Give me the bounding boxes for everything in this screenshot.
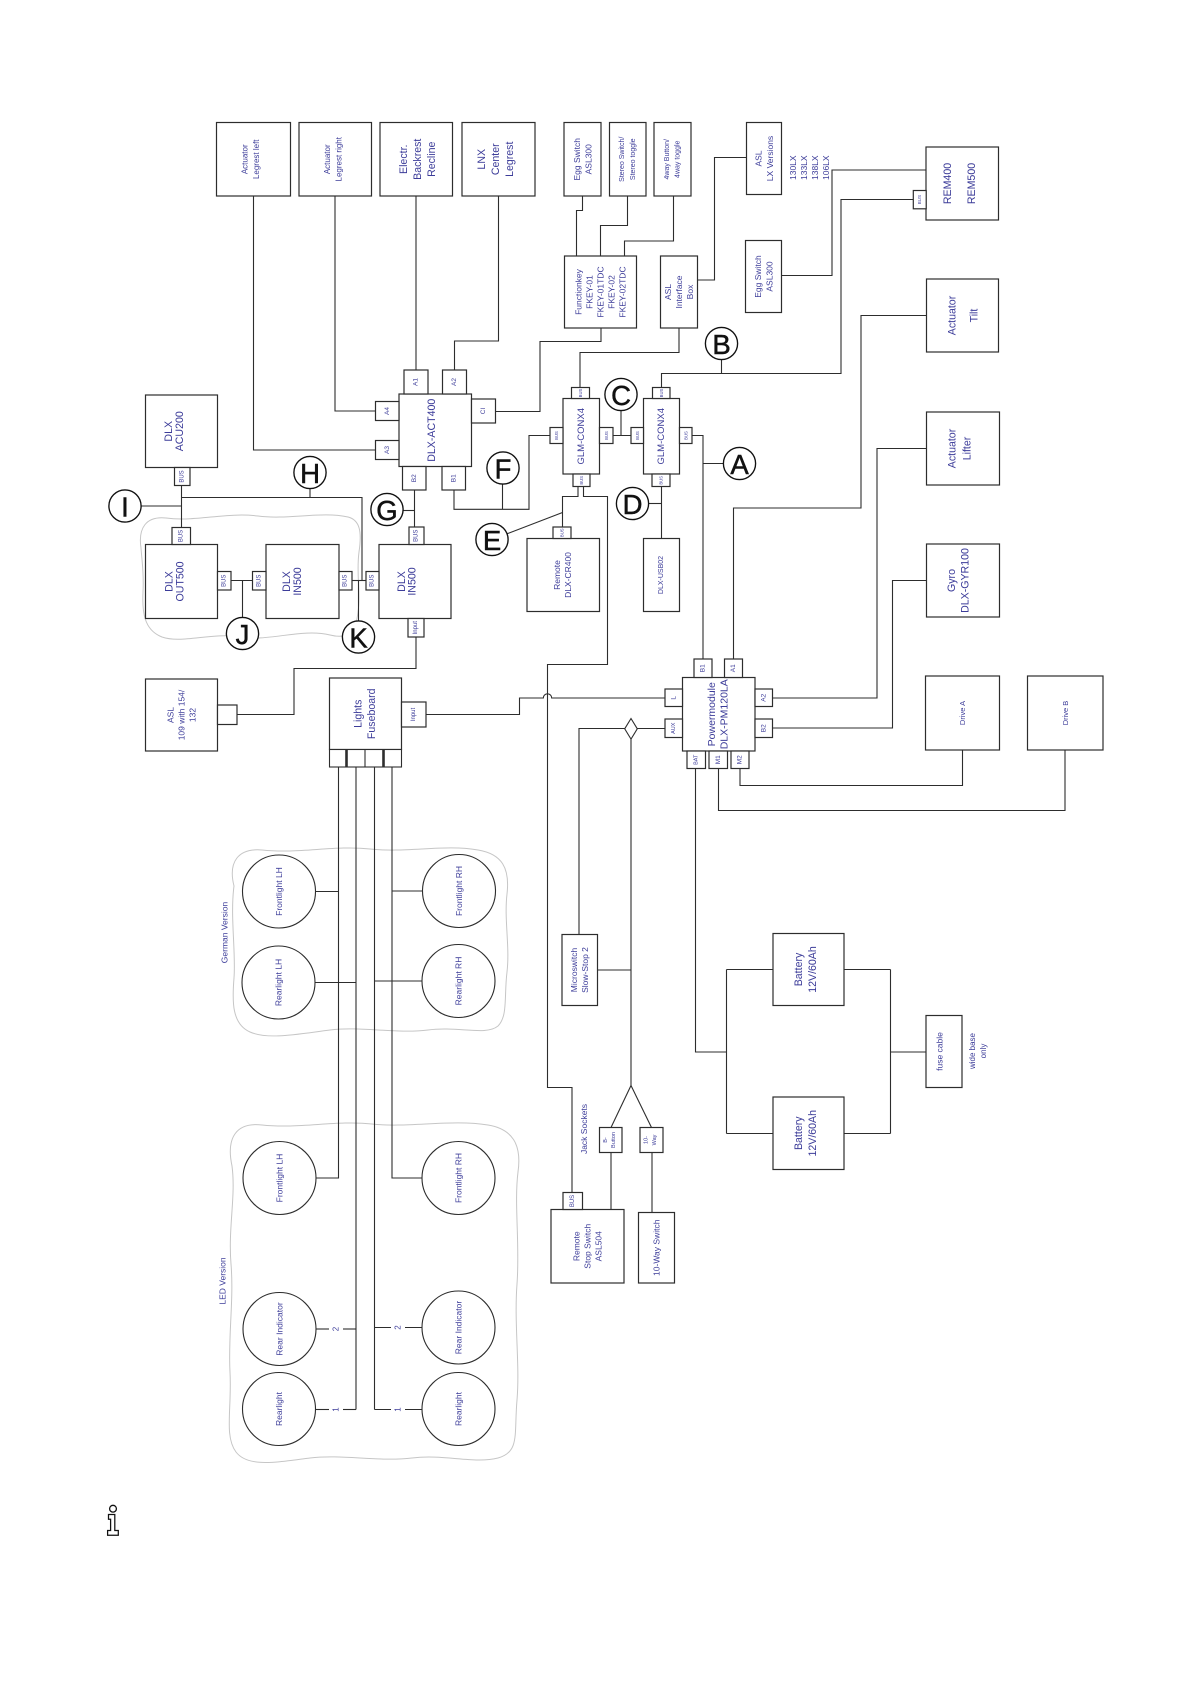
svg-text:A1: A1 <box>730 664 737 672</box>
wire node E diagonal tap <box>507 513 563 535</box>
svg-text:BUS: BUS <box>635 431 640 440</box>
port PM L <box>665 689 683 707</box>
wire Stereo Switch to Functionkey <box>601 196 628 256</box>
port IN500-1 BUS left <box>253 572 267 591</box>
component ASL 109 with 154/132 <box>146 679 218 751</box>
svg-text:IN500: IN500 <box>407 567 419 595</box>
svg-text:A1: A1 <box>413 378 420 386</box>
wire German Frontlight LH tap <box>316 891 339 893</box>
component DLX-ACT400 <box>399 394 472 467</box>
svg-text:CI: CI <box>480 408 487 415</box>
wire Functionkey to ACT400 CI <box>496 328 602 412</box>
svg-text:133LX: 133LX <box>799 155 809 180</box>
port IN500-2 BUS top <box>409 527 424 545</box>
wire lights wire 4 (Frontlight RH) <box>392 767 422 1178</box>
svg-text:DLX-GYR100: DLX-GYR100 <box>960 548 972 613</box>
port GLM1 BUS top <box>572 388 590 399</box>
component Actuator Tilt <box>927 279 999 352</box>
component LNX Center Legrest <box>462 123 535 197</box>
svg-text:REM400: REM400 <box>942 163 954 204</box>
component Egg Switch ASL300 (1) <box>564 123 601 197</box>
component 10-Way Switch <box>639 1213 675 1284</box>
component Remote DLX-CR400 <box>527 539 600 612</box>
node B <box>705 327 737 360</box>
component GLM-CONX4 (2) <box>644 399 680 475</box>
svg-text:B: B <box>712 329 730 360</box>
svg-text:Drive A: Drive A <box>958 701 967 725</box>
wire Legrest right to ACT400 A4 <box>335 196 376 411</box>
svg-text:Microswitch: Microswitch <box>569 948 579 993</box>
svg-text:Electr.: Electr. <box>398 145 410 174</box>
svg-text:1: 1 <box>394 1407 403 1412</box>
svg-text:2: 2 <box>394 1325 403 1330</box>
node K <box>342 621 374 654</box>
wire Lights Input to PM L with hop <box>426 694 665 715</box>
svg-text:Rearlight: Rearlight <box>274 1391 284 1426</box>
svg-text:FKEY-02: FKEY-02 <box>607 275 617 309</box>
svg-text:Interface: Interface <box>674 275 684 308</box>
lamp LED Rearlight L <box>243 1373 316 1446</box>
port jack 10-Way <box>640 1128 663 1153</box>
svg-text:Stereo toggle: Stereo toggle <box>630 138 637 180</box>
svg-text:Way: Way <box>652 1134 658 1145</box>
blob LED Version group <box>229 1123 519 1463</box>
svg-text:Powermodule: Powermodule <box>706 682 718 746</box>
wire lights wire 1 (Frontlight LH) <box>316 767 339 1178</box>
wire node G tap <box>403 510 415 512</box>
lamp German Rearlight RH <box>422 945 495 1018</box>
svg-text:LNX: LNX <box>476 149 488 170</box>
port GLM2 BUS top <box>653 388 671 399</box>
port PM M2 <box>731 751 749 769</box>
wire battery bottom to right bus <box>844 1133 891 1135</box>
port GLM2 BUS left <box>631 428 644 444</box>
svg-text:BUS: BUS <box>570 1195 576 1207</box>
svg-text:Frontlight RH: Frontlight RH <box>454 1153 464 1203</box>
svg-text:ASL300: ASL300 <box>765 261 775 292</box>
wire ACU200 BUS to OUT500 BUS <box>181 486 183 528</box>
svg-text:Rear Indicator: Rear Indicator <box>275 1302 285 1356</box>
wire PM A2 to Actuator Lifter <box>773 449 927 699</box>
component Electr. Backrest Recline <box>380 123 453 197</box>
svg-text:Rear Indicator: Rear Indicator <box>454 1301 464 1355</box>
svg-text:DLX-CR400: DLX-CR400 <box>563 552 573 598</box>
wire fork to B-Button jack <box>611 1086 631 1128</box>
svg-text:BUS: BUS <box>560 528 565 537</box>
node I <box>109 490 141 523</box>
port ACT400 A1 <box>404 370 428 394</box>
svg-text:ASL504: ASL504 <box>594 1231 604 1262</box>
svg-text:AUX: AUX <box>671 722 677 734</box>
svg-text:2: 2 <box>332 1326 341 1331</box>
svg-text:BUS: BUS <box>659 476 664 485</box>
svg-text:12V/60Ah: 12V/60Ah <box>807 946 819 993</box>
svg-text:I: I <box>121 492 129 523</box>
wire Legrest left to ACT400 A3 <box>254 196 376 450</box>
component Battery 12V/60Ah (bottom) <box>773 1097 844 1170</box>
svg-text:only: only <box>979 1044 988 1059</box>
lamp German Frontlight RH <box>423 855 496 928</box>
svg-text:BUS: BUS <box>256 575 262 587</box>
svg-text:Slow-Stop 2: Slow-Stop 2 <box>580 947 590 993</box>
wire ASL Interface to GLM1 top BUS <box>580 328 679 388</box>
wire battery left bus <box>726 970 728 1134</box>
port GLM1 BUS bottom <box>573 474 590 487</box>
svg-text:Recline: Recline <box>426 141 438 176</box>
svg-text:Input: Input <box>411 708 417 722</box>
svg-text:Button: Button <box>611 1132 617 1148</box>
wire GLM2 bottom BUS to DLX-USB02 <box>661 487 663 539</box>
svg-text:L: L <box>670 696 677 700</box>
component Stereo Switch / Stereo toggle <box>610 123 647 197</box>
wire left bus to battery top <box>727 969 774 971</box>
wire lights wire 3 <box>374 767 376 1410</box>
svg-text:GLM-CONX4: GLM-CONX4 <box>656 408 667 464</box>
port PM M1 <box>709 751 728 769</box>
svg-text:Remote: Remote <box>552 560 562 590</box>
svg-text:BUS: BUS <box>221 575 227 587</box>
svg-text:C: C <box>611 380 631 411</box>
svg-text:Actuator: Actuator <box>323 144 332 174</box>
wire LNX Legrest to ACT400 A2 <box>455 196 499 370</box>
svg-text:Actuator: Actuator <box>947 428 959 468</box>
lamp LED Frontlight RH <box>422 1142 495 1215</box>
lamp LED Rear Indicator R <box>422 1291 495 1364</box>
blob around DLX OUT500 and DLX IN500 group <box>140 515 360 639</box>
component Actuator Legrest right <box>299 123 372 197</box>
component Lights Fuseboard <box>330 678 402 750</box>
component Gyro DLX-GYR100 <box>927 544 1000 617</box>
svg-text:Drive B: Drive B <box>1061 701 1070 726</box>
port ACU200 BUS <box>175 468 191 486</box>
component DLX IN500 (2) <box>379 545 451 619</box>
component ASL Interface Box <box>661 256 698 328</box>
svg-text:DLX-USB02: DLX-USB02 <box>658 556 665 594</box>
wire node B tap <box>721 359 723 373</box>
port Lights Fuseboard output strip <box>330 750 402 768</box>
port GLM1 BUS left <box>550 428 563 444</box>
wire REM400 BUS to GLM2 top BUS <box>662 200 914 388</box>
svg-text:Frontlight RH: Frontlight RH <box>454 866 464 916</box>
wire PM BAT to battery bus <box>696 769 727 1053</box>
component Remote Stop Switch ASL504 <box>551 1210 624 1284</box>
node C <box>605 378 637 411</box>
svg-text:ASL: ASL <box>166 707 176 723</box>
component DLX-USB02 <box>644 539 680 612</box>
lamp German Rearlight LH <box>242 946 315 1019</box>
wire left bus to battery bottom <box>727 1133 774 1135</box>
wire LED Rearlight R lead <box>375 1409 392 1411</box>
svg-text:Battery: Battery <box>793 952 805 986</box>
svg-text:LED Version: LED Version <box>217 1257 227 1305</box>
svg-text:LX Versions: LX Versions <box>765 136 775 181</box>
wire LED Rear Indicator R lead b <box>405 1327 422 1329</box>
lamp LED Rearlight R <box>422 1373 495 1446</box>
svg-text:Lights: Lights <box>353 700 365 728</box>
svg-text:BUS: BUS <box>578 388 583 397</box>
info symbol i <box>108 1505 119 1535</box>
svg-text:REM500: REM500 <box>966 163 978 204</box>
wire IN500-2 Input to ASL109 <box>237 637 416 715</box>
svg-text:Functionkey: Functionkey <box>574 268 584 315</box>
svg-text:B1: B1 <box>700 664 707 672</box>
svg-text:Rearlight LH: Rearlight LH <box>274 959 284 1006</box>
svg-text:A3: A3 <box>384 446 391 454</box>
wire LED Rearlight R lead b <box>405 1409 422 1411</box>
svg-text:BUS: BUS <box>414 530 420 542</box>
wire battery top to right bus <box>844 969 891 971</box>
lamp LED Frontlight LH <box>243 1142 316 1215</box>
svg-text:Lifter: Lifter <box>962 436 974 460</box>
svg-text:G: G <box>376 495 397 526</box>
wire node D tap <box>648 503 661 505</box>
svg-text:K: K <box>349 623 368 654</box>
svg-text:A4: A4 <box>384 407 391 415</box>
svg-text:Legrest right: Legrest right <box>335 136 344 181</box>
svg-text:132: 132 <box>188 708 198 722</box>
svg-text:Actuator: Actuator <box>241 144 250 174</box>
port ACT400 A4 <box>376 402 400 421</box>
svg-text:Jack Sockets: Jack Sockets <box>579 1104 589 1154</box>
svg-text:Actuator: Actuator <box>947 295 959 335</box>
junction diamond on AUX wire <box>625 719 638 740</box>
port ASL109 output <box>218 705 238 725</box>
component DLX ACU200 <box>146 395 218 468</box>
svg-text:BUS: BUS <box>683 431 688 440</box>
wire node F tap <box>502 484 504 510</box>
svg-text:M2: M2 <box>737 755 744 764</box>
port PM A1 <box>725 659 743 678</box>
port GLM2 BUS right <box>680 428 693 444</box>
wire PM M2 to Drive A <box>740 750 963 786</box>
port jack B-Button <box>600 1128 623 1153</box>
node E <box>476 523 508 556</box>
svg-text:German Version: German Version <box>220 902 230 964</box>
wire PM M1 to Drive B <box>719 750 1066 811</box>
svg-text:12V/60Ah: 12V/60Ah <box>807 1110 819 1157</box>
wire German Rearlight RH tap <box>375 980 423 982</box>
svg-text:J: J <box>236 619 250 650</box>
svg-text:BUS: BUS <box>370 575 376 587</box>
component ASL LX Versions <box>747 123 782 195</box>
wire German Frontlight RH tap <box>392 890 423 892</box>
node H <box>294 456 326 489</box>
svg-text:Rearlight: Rearlight <box>454 1391 464 1426</box>
wire node H tap <box>309 488 311 497</box>
svg-text:Stop Switch: Stop Switch <box>583 1224 593 1269</box>
svg-text:fuse cable: fuse cable <box>935 1032 945 1071</box>
svg-text:Center: Center <box>490 143 502 175</box>
svg-text:B1: B1 <box>450 474 457 482</box>
svg-text:Frontlight LH: Frontlight LH <box>275 1154 285 1203</box>
wire B-Button jack to ASL504 <box>610 1153 612 1210</box>
svg-text:Legrest left: Legrest left <box>252 139 261 179</box>
component fuse cable <box>926 1016 962 1088</box>
svg-text:Input: Input <box>413 621 419 635</box>
node D <box>616 487 648 520</box>
svg-text:B-: B- <box>603 1137 609 1143</box>
component DLX OUT500 <box>146 545 218 619</box>
svg-text:BUS: BUS <box>659 388 664 397</box>
wire PM AUX to Microswitch top <box>579 729 665 935</box>
svg-text:FKEY-01TDC: FKEY-01TDC <box>596 266 606 317</box>
svg-text:M1: M1 <box>715 755 722 764</box>
wire LED Rearlight L lead <box>316 1409 330 1411</box>
wire IN500-1 right BUS to IN500-2 left BUS <box>352 580 366 582</box>
svg-text:Frontlight LH: Frontlight LH <box>274 867 284 916</box>
svg-text:BAT: BAT <box>693 754 699 765</box>
component Drive A <box>926 676 1000 750</box>
svg-text:ASL300: ASL300 <box>584 144 594 175</box>
wire fork to 10-Way jack <box>631 1086 652 1128</box>
wire GLM1 left BUS to ACT400 B1 <box>454 436 550 510</box>
port ACT400 B2 <box>403 467 427 491</box>
svg-text:4way Button/: 4way Button/ <box>664 139 671 180</box>
svg-text:OUT500: OUT500 <box>175 561 187 601</box>
wire node K tap <box>358 581 360 622</box>
svg-text:D: D <box>623 489 643 520</box>
wire ACT400 B2 to IN500-2 top BUS <box>414 490 416 527</box>
wire GLM1 right BUS to GLM2 left BUS <box>613 435 631 437</box>
port OUT500 BUS top <box>172 528 191 545</box>
node J <box>226 617 258 650</box>
svg-text:106LX: 106LX <box>821 155 831 180</box>
svg-text:A: A <box>730 449 749 480</box>
wire bus branch to IN500-2 left BUS <box>182 498 367 581</box>
port IN500-1 BUS right <box>339 572 352 591</box>
component Microswitch Slow-Stop 2 <box>562 935 598 1006</box>
port OUT500 BUS right <box>218 572 232 591</box>
svg-text:E: E <box>483 525 501 556</box>
svg-text:BUS: BUS <box>554 431 559 440</box>
wire node I tap <box>141 505 182 507</box>
wire node J tap <box>242 581 244 618</box>
svg-text:Legrest: Legrest <box>504 142 516 177</box>
component GLM-CONX4 (1) <box>563 399 600 475</box>
port PM AUX <box>665 719 683 738</box>
svg-text:Rearlight RH: Rearlight RH <box>454 957 464 1006</box>
wire diamond to jack sockets fork <box>630 739 632 1085</box>
svg-text:F: F <box>495 454 512 485</box>
svg-text:BUS: BUS <box>179 470 185 482</box>
wire PM A1 to Actuator Tilt <box>734 316 927 660</box>
component Functionkey FKEY <box>565 256 637 328</box>
svg-text:Egg Switch: Egg Switch <box>572 138 582 181</box>
svg-text:IN500: IN500 <box>292 567 304 595</box>
svg-text:Battery: Battery <box>793 1116 805 1150</box>
node G <box>371 493 403 526</box>
wire Backrest to ACT400 A1 <box>415 196 417 370</box>
wire 4way Button to Functionkey <box>625 196 674 256</box>
port IN500-2 Input <box>408 619 424 638</box>
wire REM400 to Egg Switch 2 <box>782 170 927 276</box>
wire PM B2 to Gyro <box>773 581 927 729</box>
port Lights Input <box>402 702 427 727</box>
wire LED Rearlight L lead b <box>343 1409 356 1411</box>
component Actuator Legrest left <box>217 123 291 197</box>
component 4way Button / 4way toggle <box>654 123 691 197</box>
svg-text:Fuseboard: Fuseboard <box>366 688 378 739</box>
port PM A2 <box>755 689 773 707</box>
wire German Rearlight LH tap <box>315 982 356 984</box>
svg-text:A2: A2 <box>760 693 767 701</box>
svg-text:Remote: Remote <box>572 1231 582 1261</box>
blob German Version group <box>232 848 508 1036</box>
component Powermodule DLX-PM120LA <box>683 678 756 752</box>
wire LED Rear Indicator L lead b <box>343 1328 356 1330</box>
svg-text:ACU200: ACU200 <box>174 411 186 451</box>
port ACT400 CI <box>472 399 496 423</box>
svg-text:FKEY-01: FKEY-01 <box>585 275 595 309</box>
svg-text:BUS: BUS <box>917 195 922 204</box>
port GLM1 BUS right <box>600 428 614 444</box>
wire lights wire 2 <box>355 767 357 1410</box>
port REM400 BUS <box>913 191 926 209</box>
wire Egg Switch 1 to Functionkey <box>577 196 583 256</box>
svg-text:4way toggle: 4way toggle <box>675 140 682 177</box>
port ACT400 B1 <box>442 467 466 491</box>
component Egg Switch ASL300 (2) <box>746 241 782 313</box>
port PM B2 <box>755 719 773 738</box>
wire LED Rear Indicator L lead <box>316 1328 329 1330</box>
svg-text:H: H <box>300 458 320 489</box>
svg-text:GLM-CONX4: GLM-CONX4 <box>576 408 587 464</box>
node A <box>723 447 755 480</box>
lamp German Frontlight LH <box>243 855 316 928</box>
svg-text:BUS: BUS <box>579 476 584 485</box>
svg-text:BUS: BUS <box>178 530 184 542</box>
wire tap to Microswitch right edge <box>598 969 632 971</box>
svg-text:1: 1 <box>332 1407 341 1412</box>
component Actuator Lifter <box>927 412 1000 485</box>
svg-text:DLX-PM120LA: DLX-PM120LA <box>719 679 731 749</box>
wire GLM2 right BUS to PM B1 <box>692 436 703 660</box>
svg-text:Stereo Switch/: Stereo Switch/ <box>619 137 626 182</box>
port ACT400 A3 <box>376 441 400 460</box>
svg-text:B2: B2 <box>411 474 418 482</box>
wire GLM1 bottom BUS to CR400 BUS <box>563 487 579 528</box>
wire ASL Interface to ASL LX Versions <box>698 158 747 281</box>
lamp LED Rear Indicator L <box>243 1293 316 1366</box>
port IN500-2 BUS left <box>366 572 379 591</box>
svg-text:Backrest: Backrest <box>412 139 424 180</box>
svg-text:wide base: wide base <box>968 1032 977 1070</box>
svg-text:B2: B2 <box>760 724 767 732</box>
node F <box>487 452 519 485</box>
svg-text:BUS: BUS <box>604 431 609 440</box>
wire node C tap <box>620 410 622 435</box>
port ASL504 BUS <box>563 1193 583 1210</box>
wire LED Rear Indicator R lead <box>375 1327 392 1329</box>
svg-text:FKEY-02TDC: FKEY-02TDC <box>618 266 628 317</box>
svg-text:10-Way Switch: 10-Way Switch <box>652 1219 662 1276</box>
port PM BAT <box>687 751 706 769</box>
svg-text:BUS: BUS <box>343 575 349 587</box>
component DLX IN500 (1) <box>266 545 339 619</box>
wire right bus to fuse cable <box>891 1051 927 1053</box>
svg-text:A2: A2 <box>451 378 458 386</box>
svg-text:Egg Switch: Egg Switch <box>753 255 763 298</box>
wire node A tap <box>703 463 724 465</box>
svg-text:Tilt: Tilt <box>969 309 981 323</box>
svg-text:ASL: ASL <box>663 284 673 300</box>
port GLM2 BUS bottom <box>652 474 670 487</box>
svg-text:130LX: 130LX <box>788 155 798 180</box>
svg-text:DLX-ACT400: DLX-ACT400 <box>426 399 438 462</box>
port PM B1 <box>694 659 712 678</box>
component Drive B <box>1028 676 1104 750</box>
svg-text:Box: Box <box>685 284 695 299</box>
